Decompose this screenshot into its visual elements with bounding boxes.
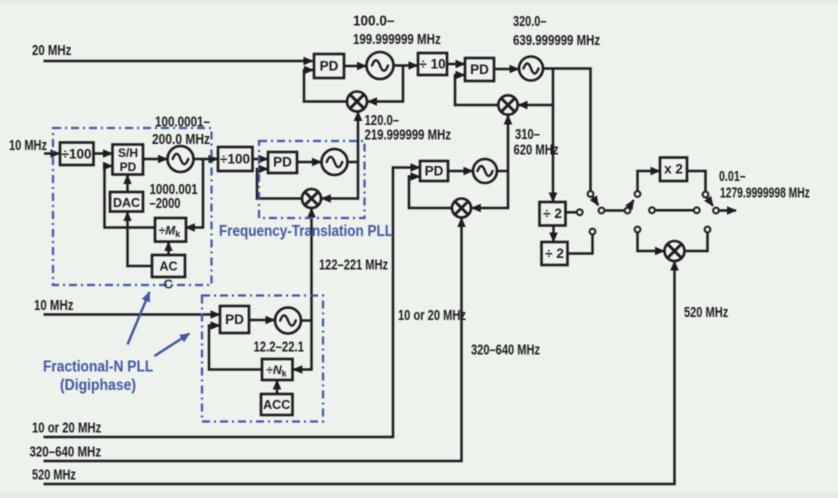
block divide-by-10 — [418, 53, 447, 75]
wire divide-by-10 to PD2 — [447, 63, 465, 66]
switch contact from divide-by-2b — [590, 229, 596, 235]
dash-dot box Fractional-N PLL upper — [53, 128, 212, 285]
wire divide-by-Mk output to S/H PD feedback input — [105, 166, 156, 228]
block ACC — [261, 394, 293, 415]
mixer M4 — [665, 241, 685, 261]
blue annotation arrow to upper box — [128, 292, 150, 345]
wire ACC up to divide-by-Nk — [276, 381, 279, 395]
wire bypass between contacts D and E — [655, 209, 694, 212]
svg-text:200.0 MHz: 200.0 MHz — [152, 132, 210, 148]
switch contact F — [635, 227, 641, 233]
mixer M3 — [452, 199, 471, 218]
svg-text:S/H: S/H — [118, 146, 138, 160]
svg-text:Fractional-N PLL: Fractional-N PLL — [43, 359, 153, 376]
oscillator VCO-F2 — [275, 308, 301, 334]
sine symbol VCO3 — [478, 166, 493, 176]
block divide-by-100b — [218, 147, 253, 171]
wire divide-by-2b output up to contact — [568, 235, 593, 254]
block PD2 — [465, 58, 494, 81]
wire divide-by-2a output to contact — [566, 211, 577, 214]
wire VCO3 output — [497, 170, 508, 173]
wire PD2 to VCO2 — [494, 68, 519, 71]
svg-text:20 MHz: 20 MHz — [32, 43, 71, 59]
wire DAC up to S/H PD — [126, 175, 129, 192]
svg-text:PD: PD — [320, 59, 339, 74]
svg-text:320–640 MHz: 320–640 MHz — [471, 343, 540, 359]
svg-text:219.999999 MHz: 219.999999 MHz — [365, 128, 452, 144]
svg-text:10 or 20 MHz: 10 or 20 MHz — [32, 421, 101, 437]
wire mixer M3 output to PD3 feedback input — [409, 177, 453, 209]
block PD1 — [314, 54, 344, 78]
svg-text:620 MHz: 620 MHz — [514, 143, 559, 159]
wire divide-by-2a down to divide-by-2b — [552, 226, 555, 242]
X of mixer M3 — [456, 202, 468, 214]
svg-text:520 MHz: 520 MHz — [32, 468, 76, 484]
block divide-by-Mk — [155, 218, 186, 242]
X of mixer M4 — [668, 245, 680, 257]
block S/H PD — [113, 145, 144, 175]
wire output arrow — [719, 209, 736, 212]
wire VCO2 output branch down to divide-by-2a — [552, 69, 555, 202]
wire PD-FT to VCO-FT — [297, 161, 321, 164]
wire VCO2 output right and down to switch contact A — [543, 69, 591, 192]
wire PD-D to VCO-F2 — [249, 319, 275, 322]
block divide-by-2b — [542, 242, 568, 265]
wire VCO-F2 output up into mixer M-FT — [310, 209, 313, 321]
svg-text:10 MHz: 10 MHz — [34, 298, 74, 314]
svg-text:520 MHz: 520 MHz — [684, 305, 728, 321]
svg-text:÷ 10: ÷ 10 — [419, 57, 445, 72]
wire VCO3 output up into mixer M2 — [507, 116, 510, 172]
wire divide-by-100b to PD-FT — [253, 158, 268, 161]
wire contact F down into mixer M4 — [638, 233, 665, 252]
svg-text:0.01–: 0.01– — [719, 169, 746, 185]
wire VCO-F2 output — [301, 319, 312, 322]
oscillator VCO1 — [367, 52, 394, 79]
svg-text:AC: AC — [159, 260, 177, 274]
wire VCO-F2 output down into divide-by-Nk — [293, 321, 311, 370]
svg-text:PD: PD — [120, 160, 137, 174]
switch pole P1 — [599, 208, 605, 214]
svg-text:–2000: –2000 — [150, 196, 181, 212]
svg-text:320.0–: 320.0– — [513, 14, 546, 30]
svg-text:122–221 MHz: 122–221 MHz — [319, 258, 388, 274]
svg-text:PD: PD — [273, 155, 292, 170]
svg-text:PD: PD — [425, 164, 444, 179]
switch pole P3 — [713, 208, 719, 214]
sine symbol VCO1 — [372, 60, 388, 71]
blue annotation arrow to lower box — [155, 334, 190, 357]
svg-text:(Digiphase): (Digiphase) — [60, 377, 136, 394]
switch arm C to pole P3 — [707, 198, 713, 206]
X of mixer M1 — [351, 95, 363, 107]
X of mixer M2 — [502, 99, 514, 111]
block PD-FT — [268, 152, 297, 173]
wire contact B up to x2 multiplier — [638, 171, 660, 191]
svg-text:Frequency-Translation PLL: Frequency-Translation PLL — [219, 223, 393, 240]
svg-text:C: C — [164, 277, 174, 292]
wire AC output to DAC — [128, 212, 153, 266]
svg-text:÷ 2: ÷ 2 — [545, 246, 564, 261]
svg-text:DAC: DAC — [113, 196, 140, 210]
switch contact A — [588, 191, 594, 197]
svg-text:320–640 MHz: 320–640 MHz — [30, 445, 102, 461]
block DAC — [110, 192, 143, 212]
wire 520 MHz bus up into mixer M4 — [44, 262, 675, 485]
wire mixer M-FT output to PD-FT feedback input — [257, 169, 302, 199]
wire 320-640 MHz bus up into mixer M3 — [44, 218, 462, 461]
wire VCO1 output down to mixer M1 — [368, 66, 403, 102]
switch contact G — [705, 227, 711, 233]
oscillator VCO2 — [519, 57, 543, 81]
wire VCO-FT output up into mixer M1 — [357, 112, 360, 162]
svg-text:100.0001–: 100.0001– — [155, 115, 210, 131]
wire mixer M4 output up to contact G — [685, 233, 708, 252]
svg-text:÷100: ÷100 — [220, 152, 250, 167]
wire PD3 to VCO3 — [448, 170, 473, 173]
wire VCO3 output down into mixer M3 — [472, 171, 508, 208]
oscillator VCO-FT — [322, 149, 348, 175]
mixer M1 — [347, 92, 367, 112]
wire pole P1 to pole P2 — [605, 209, 628, 212]
svg-text:ACC: ACC — [263, 398, 290, 412]
wire mixer M2 output to PD2 feedback input — [455, 75, 499, 105]
wire VCO-F1 output down into divide-by-Mk — [186, 159, 203, 228]
oscillator VCO-F1 — [168, 146, 194, 172]
sine symbol VCO-F1 — [173, 154, 189, 164]
wire 10-or-20 MHz bus up to PD3 — [44, 168, 420, 438]
wire VCO-FT output right — [348, 161, 359, 164]
svg-text:PD: PD — [225, 312, 244, 327]
wire S/H PD to VCO-F1 — [143, 158, 167, 161]
svg-text:100.0–: 100.0– — [353, 14, 394, 30]
svg-text:310–: 310– — [515, 127, 540, 143]
wire 10 MHz input to PD-D — [44, 313, 220, 316]
switch contact C — [703, 192, 709, 198]
switch contact from divide-by-2a — [577, 209, 583, 215]
block divide-by-2a — [540, 202, 566, 226]
svg-text:199.999999 MHz: 199.999999 MHz — [353, 32, 441, 48]
block AC — [152, 255, 185, 277]
sine symbol VCO-FT — [327, 157, 343, 167]
wire VCO-F1 to divide-by-100b — [194, 158, 218, 161]
switch arm A to pole P1 — [593, 197, 599, 206]
sine symbol VCO-F2 — [280, 315, 296, 325]
X of mixer M-FT — [306, 193, 318, 205]
dash-dot box Frequency-Translation PLL — [259, 141, 365, 218]
block divide-by-100a — [60, 143, 94, 166]
mixer M-FT — [302, 189, 321, 208]
block divide-by-Nk — [262, 359, 293, 380]
wire VCO-FT output down into mixer M-FT — [322, 162, 358, 199]
wire divide-by-Nk output to PD-D feedback input — [209, 326, 262, 370]
oscillator VCO3 — [473, 159, 497, 183]
sine symbol VCO2 — [524, 64, 539, 74]
switch arm P2 to contact B — [629, 200, 634, 207]
wire mixer M1 output to PD1 feedback input — [304, 70, 347, 102]
svg-text:PD: PD — [470, 62, 489, 77]
svg-text:÷ 2: ÷ 2 — [543, 206, 562, 221]
block PD3 — [420, 161, 448, 181]
switch pole P2 — [625, 208, 631, 214]
svg-text:639.999999 MHz: 639.999999 MHz — [513, 33, 600, 49]
switch contact D — [649, 207, 655, 213]
wire VCO1 to divide-by-10 — [394, 64, 418, 67]
svg-text:10 or 20 MHz: 10 or 20 MHz — [398, 308, 466, 324]
svg-text:x 2: x 2 — [664, 162, 683, 177]
wire 20 MHz input to PD1 — [44, 60, 313, 63]
svg-text:10 MHz: 10 MHz — [9, 138, 47, 154]
wire x2 output down to contact C — [687, 171, 706, 192]
wire divide-by-100a to S/H PD — [94, 152, 113, 155]
mixer M2 — [498, 95, 517, 114]
switch contact B — [635, 191, 641, 197]
wire AC up to divide-by-Mk — [167, 242, 170, 255]
wire PD1 to VCO1 — [344, 65, 366, 68]
switch contact E — [694, 207, 700, 213]
svg-text:12.2–22.1: 12.2–22.1 — [254, 340, 305, 356]
svg-text:1279.9999998 MHz: 1279.9999998 MHz — [720, 186, 810, 202]
svg-text:÷100: ÷100 — [62, 147, 92, 162]
wire 10 MHz input to divide-by-100a — [44, 152, 60, 155]
wire branch into mixer M2 — [519, 104, 554, 107]
dash-dot box Digiphase lower — [202, 296, 323, 422]
block x2 multiplier — [660, 158, 687, 182]
block PD-D — [220, 306, 249, 333]
